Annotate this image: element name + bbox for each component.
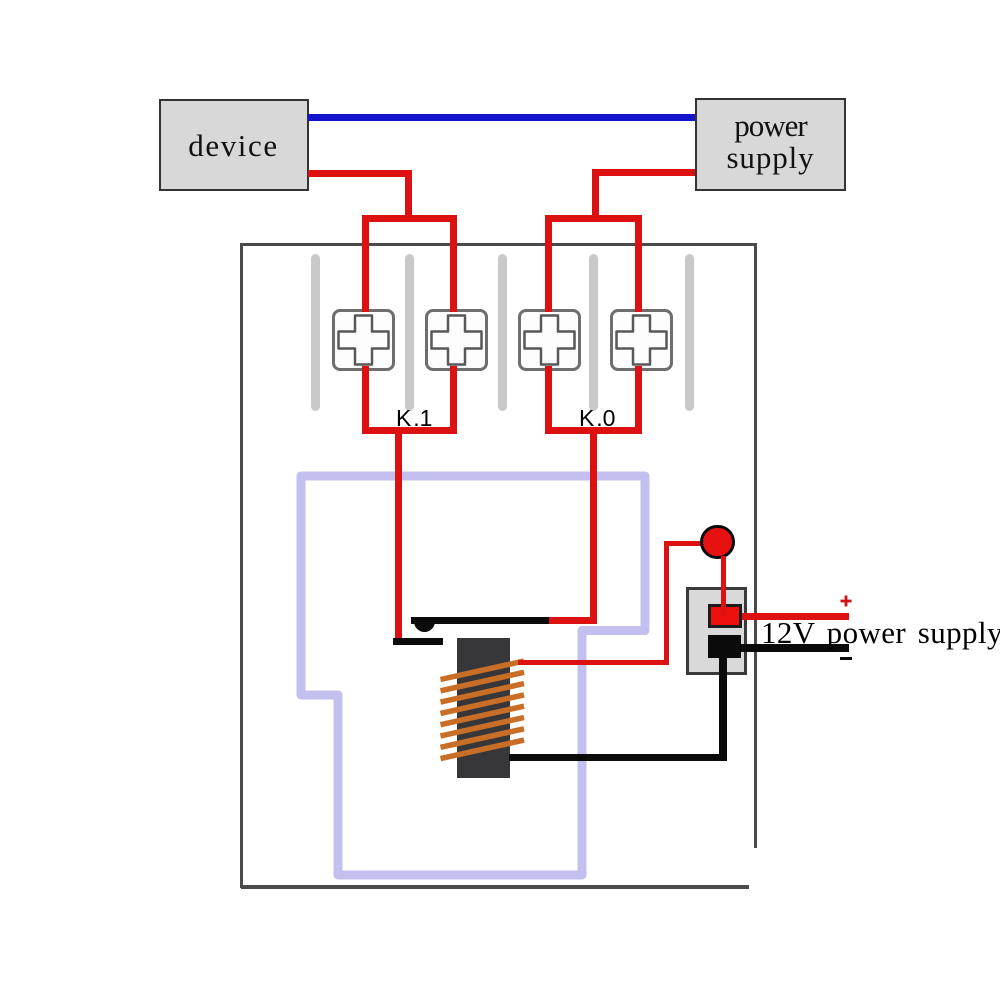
wire box top edge <box>240 243 756 246</box>
screw cross terminal 4 <box>617 316 667 365</box>
wire corner up <box>664 541 669 664</box>
screw terminal 1 <box>332 309 395 371</box>
device label <box>159 130 309 161</box>
wire box left edge <box>240 243 243 888</box>
terminal rail bar 1 <box>311 254 320 411</box>
device box <box>159 99 309 191</box>
red wire from device <box>308 170 412 177</box>
wire K1 drop to contact <box>395 427 402 645</box>
power supply box <box>695 98 846 192</box>
wire down to terminal 3 <box>545 215 552 434</box>
wire bus bar above K0 terminals <box>545 215 642 222</box>
screw terminal 3 <box>518 309 581 371</box>
wire corner down <box>405 170 412 222</box>
armature pivot dot <box>414 621 435 632</box>
wire down to terminal 2 <box>450 215 457 434</box>
terminal rail bar 2 <box>405 254 414 411</box>
relay coil core <box>457 638 510 778</box>
red wire stubs over terminal borders <box>362 306 369 312</box>
plus sign <box>840 595 852 607</box>
wire box right edge <box>754 243 757 848</box>
node K1 label <box>396 407 432 430</box>
screw cross terminal 1 <box>339 316 389 365</box>
armature bar (common contact lever) <box>411 617 550 624</box>
12V terminal block <box>686 587 747 675</box>
push button (red circle) <box>700 525 735 560</box>
wire corner down <box>592 169 599 223</box>
negative wire to coil bottom <box>509 754 727 761</box>
screw terminal 4 <box>610 309 673 371</box>
wire down to terminal 1 <box>362 215 369 434</box>
block positive terminal (red) <box>708 604 742 629</box>
negative wire down from block <box>719 656 727 761</box>
screw cross terminal 3 <box>525 316 575 365</box>
coil wire red to push button <box>518 660 669 665</box>
power supply label <box>695 110 846 173</box>
minus sign <box>840 657 852 661</box>
terminal rail bar 5 <box>685 254 694 411</box>
armature red end segment <box>549 617 597 624</box>
terminal rail bar 3 <box>498 254 507 411</box>
wire down to terminal 4 <box>635 215 642 434</box>
wire top to button <box>664 541 709 545</box>
wire button down to terminal block <box>721 556 726 616</box>
positive supply lead (red) <box>742 613 849 620</box>
screw cross terminal 2 <box>432 316 482 365</box>
node K0 label <box>579 407 615 430</box>
block negative terminal (black) <box>708 635 741 659</box>
screw terminal 2 <box>425 309 488 371</box>
wire bus bar above K1 terminals <box>362 215 458 222</box>
wire bus bar below K1 terminals <box>362 427 458 434</box>
stationary contact bar <box>393 638 443 645</box>
wire bus bar below K0 terminals <box>545 427 642 434</box>
12V power supply label <box>761 617 1000 648</box>
red wire from power supply <box>592 169 695 176</box>
negative supply lead (black) <box>738 644 850 652</box>
wire K0 drop to armature <box>590 427 597 624</box>
blue wire device to power supply <box>308 114 695 121</box>
terminal rail bar 4 <box>589 254 598 411</box>
wire box bottom edge <box>241 885 749 889</box>
